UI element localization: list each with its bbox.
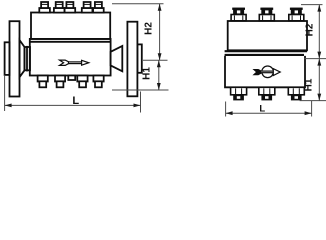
svg-text:H1: H1 [303, 78, 314, 91]
svg-text:H1: H1 [141, 67, 152, 80]
svg-text:H2: H2 [144, 22, 155, 35]
svg-text:L: L [72, 95, 79, 107]
svg-text:L: L [259, 103, 265, 114]
svg-text:H2: H2 [305, 23, 316, 36]
